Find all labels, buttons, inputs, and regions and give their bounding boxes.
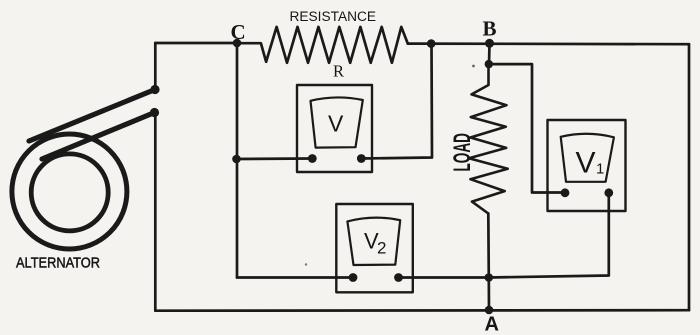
voltmeter V2 right terminal [394, 273, 403, 282]
wire bottom [155, 309, 689, 312]
wire V left terminal to C vertical [237, 157, 313, 160]
speck left of V2 [305, 263, 307, 265]
voltmeter V box [297, 85, 372, 172]
svg-text:V: V [328, 111, 344, 137]
junction dot bottom [485, 273, 494, 282]
alternator coil inner turn [31, 154, 108, 231]
load resistor zigzag [469, 64, 508, 213]
wire right edge vertical [688, 44, 691, 310]
junction dot on C vertical [232, 155, 241, 164]
node B [485, 39, 494, 48]
svg-text:B: B [483, 16, 497, 40]
voltmeter V2 face [347, 218, 400, 265]
voltmeter V face [311, 97, 363, 147]
wire V right terminal to top junction [361, 44, 432, 159]
junction dot right of resistor [427, 39, 436, 48]
voltmeter V2 box [336, 204, 413, 292]
voltmeter V1 face [561, 134, 614, 182]
resistor R zigzag [237, 27, 408, 63]
wire B to load top [488, 43, 491, 64]
alternator lead bottom [42, 113, 155, 160]
wire node C vertical [236, 43, 239, 278]
wire top left (corner to node C) [155, 42, 237, 45]
svg-text:A: A [485, 314, 499, 335]
voltmeter V1 right terminal [604, 188, 613, 197]
junction dot load top [485, 60, 493, 68]
wire bottom junction to node A [487, 278, 490, 311]
node A [485, 306, 494, 315]
wire V2 right terminal to bottom junction [399, 276, 489, 279]
alternator terminal top [150, 85, 159, 94]
svg-text:2: 2 [377, 239, 386, 258]
wire left vertical bottom (alternator to bottom wire) [154, 113, 157, 311]
wire V1 right terminal to bottom junction [489, 193, 609, 278]
svg-text:ALTERNATOR: ALTERNATOR [16, 255, 100, 272]
voltmeter V2 left terminal [349, 273, 358, 282]
wire load bottom to bottom junction [487, 214, 490, 278]
voltmeter V1 left terminal [561, 188, 570, 197]
wire left vertical top (alternator to top-left corner) [154, 43, 157, 90]
speck near load top [472, 65, 475, 68]
alternator coil outer turn [12, 134, 127, 249]
svg-text:1: 1 [596, 161, 604, 178]
voltmeter V right terminal [357, 154, 366, 163]
alternator terminal bottom [150, 108, 159, 117]
svg-text:RESISTANCE: RESISTANCE [290, 9, 377, 24]
node C [233, 39, 242, 48]
wire load top jog to V1 left terminal [489, 64, 565, 192]
svg-text:R: R [333, 62, 344, 81]
voltmeter V1 box [548, 120, 626, 211]
wire C vertical corner to V2 left terminal [237, 276, 353, 279]
svg-text:LOAD: LOAD [449, 133, 476, 172]
alternator lead top [29, 90, 155, 142]
svg-text:C: C [231, 20, 246, 44]
voltmeter V left terminal [308, 154, 317, 163]
svg-text:V: V [576, 147, 596, 180]
wire resistor to node B and right edge [408, 42, 689, 45]
